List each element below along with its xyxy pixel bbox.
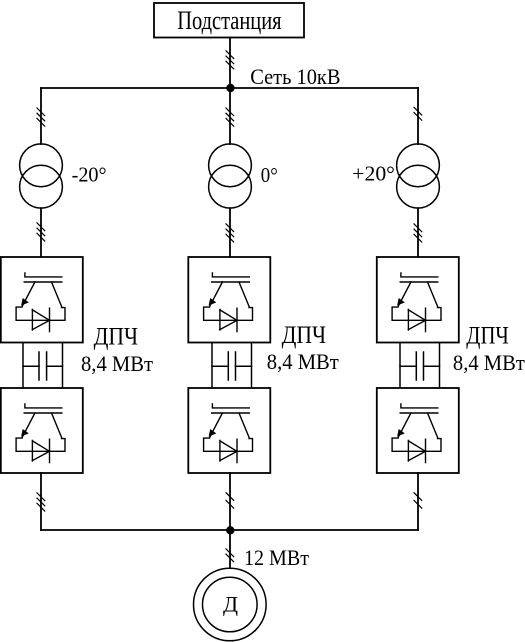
transformer T2 <box>209 144 252 208</box>
cable marks below U1b <box>37 493 45 511</box>
10kV bus wire <box>41 87 418 89</box>
wire: substation feeder down to 10kV bus <box>229 38 231 89</box>
svg-text:Д: Д <box>223 591 238 616</box>
inverter U3b box <box>377 388 459 473</box>
rectifier U1a box <box>1 257 83 343</box>
DC link wires branch 3 <box>400 343 440 388</box>
svg-text:+20°: +20° <box>352 162 395 186</box>
transformer T1 <box>20 144 63 208</box>
svg-text:8,4 МВт: 8,4 МВт <box>81 351 153 376</box>
rectifier U2a box <box>188 257 270 343</box>
cable marks below T3 <box>414 224 422 242</box>
svg-text:ДПЧ: ДПЧ <box>94 324 139 351</box>
IGBT+diode symbol in U1b <box>16 404 65 463</box>
cable marks above T1 <box>37 108 45 126</box>
wire: bus to transformer T1 <box>40 88 42 144</box>
wire: T3 to rectifier U3a <box>417 208 419 257</box>
svg-text:Сеть 10кВ: Сеть 10кВ <box>250 64 340 89</box>
svg-text:Подстанция: Подстанция <box>177 6 281 35</box>
junction: feeder / 10kV bus <box>226 84 234 92</box>
svg-text:-20°: -20° <box>72 162 107 186</box>
wire: bus to motor M1 <box>229 530 231 568</box>
svg-text:ДПЧ: ДПЧ <box>466 322 509 349</box>
junction: motor feeder / motor bus <box>226 526 234 534</box>
wire: T2 to rectifier U2a <box>229 208 231 257</box>
IGBT+diode symbol in U2b <box>204 404 253 463</box>
wire: bus to transformer T3 <box>417 88 419 144</box>
IGBT+diode symbol in U2a <box>204 273 253 332</box>
motor M1 <box>194 568 267 641</box>
svg-text:8,4 МВт: 8,4 МВт <box>267 349 339 374</box>
cable marks below T1 <box>37 223 45 241</box>
inverter U1b box <box>1 388 83 473</box>
DC link capacitor C2 <box>228 352 235 380</box>
cable marks below U2b <box>226 493 234 508</box>
DC link wires branch 2 <box>212 343 252 388</box>
svg-text:12 МВт: 12 МВт <box>244 545 309 570</box>
cable marks on substation feeder <box>226 51 234 69</box>
cable marks above T3 <box>414 107 422 120</box>
substation box <box>154 3 304 38</box>
IGBT+diode symbol in U3a <box>392 273 441 332</box>
cable marks below U3b <box>414 493 422 508</box>
cable marks below T2 <box>226 224 234 242</box>
svg-text:0°: 0° <box>261 163 278 187</box>
transformer T3 <box>397 144 440 208</box>
wire: U3b to motor bus <box>417 473 419 530</box>
DC link capacitor C1 <box>39 352 47 380</box>
IGBT+diode symbol in U3b <box>392 404 441 463</box>
cable marks on motor feeder <box>226 549 234 562</box>
rectifier U3a box <box>377 257 459 343</box>
wire: U1b to motor bus <box>40 473 42 530</box>
wire: bus to transformer T2 <box>229 88 231 144</box>
DC link capacitor C3 <box>416 352 423 380</box>
motor bus wire <box>41 529 418 531</box>
wire: T1 to rectifier U1a <box>40 208 42 257</box>
inverter U2b box <box>188 388 270 473</box>
DC link wires branch 1 <box>23 343 63 388</box>
svg-text:ДПЧ: ДПЧ <box>282 322 327 349</box>
cable marks above T2 <box>226 108 234 126</box>
IGBT+diode symbol in U1a <box>16 273 65 332</box>
wire: U2b to motor bus <box>229 473 231 530</box>
svg-text:8,4 МВт: 8,4 МВт <box>453 350 525 375</box>
